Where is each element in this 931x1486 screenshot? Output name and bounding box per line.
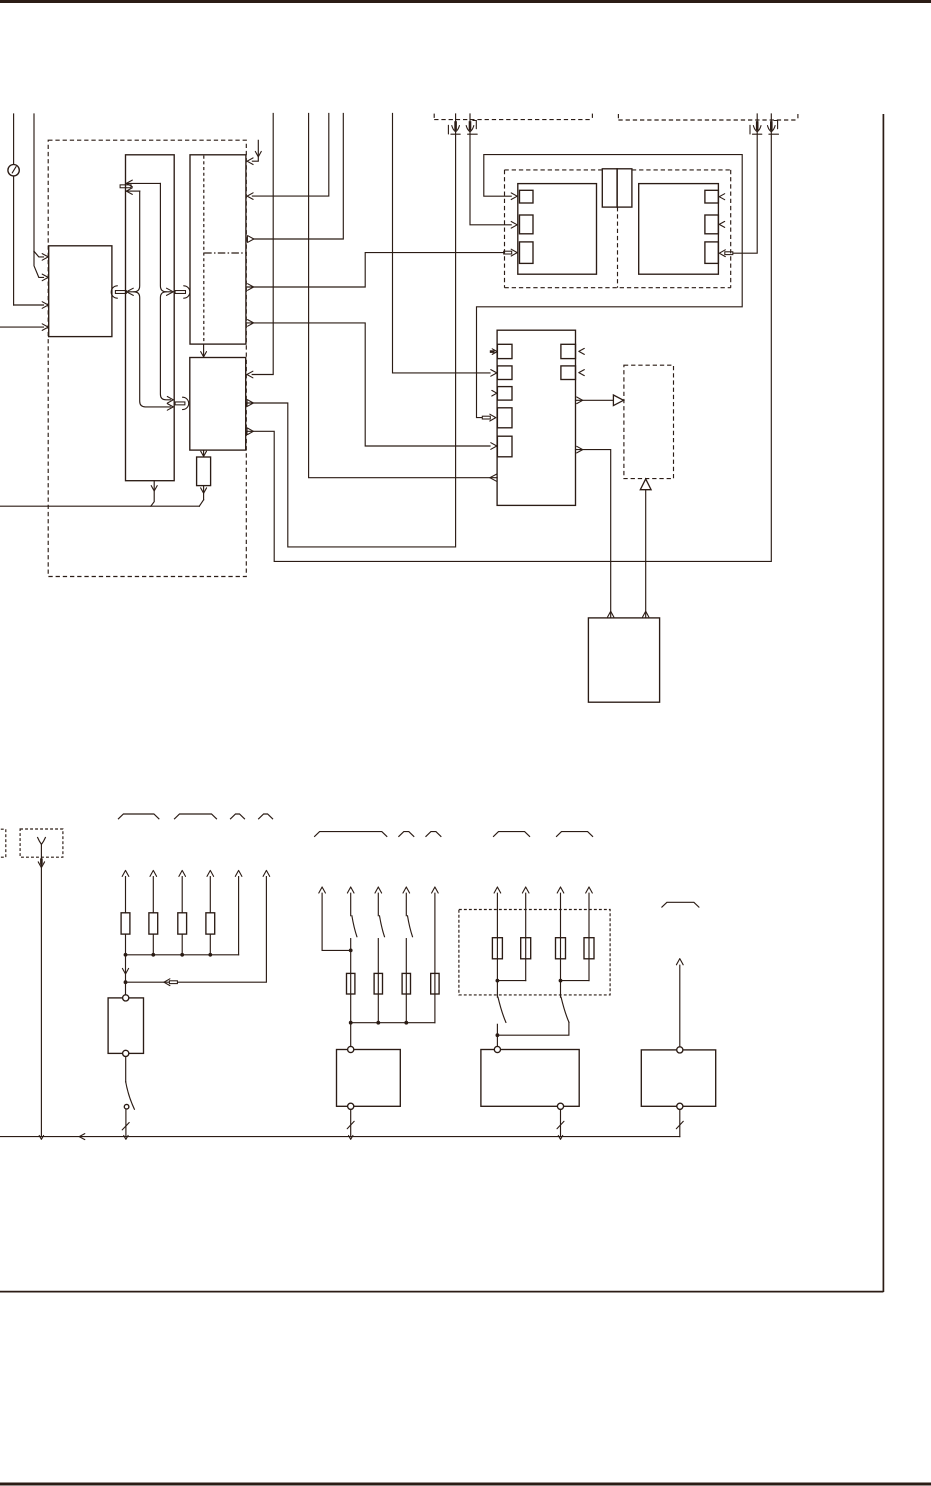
wire 6 lower-left feeding relay row — [124, 870, 270, 985]
wire W4 door-switch loop (left block pin1 to connector C pin4) — [477, 155, 743, 421]
overbrace connector bracket row2-3 — [426, 832, 441, 837]
control box B — [190, 358, 246, 451]
ground bus lower-left of unit L1 — [0, 505, 199, 507]
page top border rule — [0, 0, 931, 3]
dashed connector strip (right) — [618, 114, 798, 120]
dashed battery source box — [20, 829, 63, 857]
flat terminal at shift lock solenoid row — [120, 180, 160, 194]
switch blade below relay — [122, 1057, 134, 1140]
box C right pin 1 — [561, 344, 584, 358]
dashed connector fragment at left page edge — [1, 829, 6, 857]
wire unit L1 bottom to ground bus — [151, 481, 157, 507]
wire entering from top into box R1 pin a — [247, 140, 261, 164]
fuse box wire/fuse at x=525.7 — [521, 887, 531, 981]
connector pass symbol on wire W2 at dashed strip — [448, 121, 460, 134]
wire battery box to ground bus — [38, 844, 44, 1139]
middle group wire/fuse at x=378.3 — [374, 887, 384, 1025]
fuse pair 1 junction — [496, 979, 526, 983]
control box E — [588, 618, 659, 702]
wire box R1 pin e to connector C pin5 — [246, 320, 496, 450]
overbrace connector bracket row2-2 — [399, 832, 414, 837]
connector symbol at unit A right edge — [111, 286, 126, 298]
relay RB (starter cut) — [108, 995, 143, 1057]
right block pin 2 — [705, 215, 725, 234]
partition dashed line below coupler — [617, 207, 619, 288]
wire 5 lower-left (no fuse) — [235, 870, 242, 954]
wire left dashed strip to left block pin2 — [470, 114, 517, 228]
fuse 3 lower-left with feed wire — [178, 870, 187, 956]
wire top column to box C left edge (output) — [309, 114, 498, 482]
wire input from left margin — [0, 324, 48, 331]
overbrace connector bracket row1-1 — [118, 814, 158, 819]
overbrace connector bracket row1-3 — [231, 814, 245, 819]
box C right pin 2 — [561, 366, 584, 380]
wire bus to box G — [350, 1023, 352, 1047]
left door switch block — [518, 184, 597, 275]
right block pin 3 — [705, 242, 719, 264]
wire battery feed with gauge symbol — [8, 114, 48, 308]
junction bus under lower-left fuses — [126, 954, 239, 956]
dashed fuse box enclosure (lower right) — [459, 910, 610, 995]
door lock actuator box G — [337, 1046, 401, 1109]
connector pass symbol on pin3 wire — [750, 121, 762, 134]
box C pin 1 with stub arrow — [490, 344, 512, 358]
diagram frame right border — [882, 114, 884, 1292]
solenoid driver box R1 — [190, 155, 246, 344]
middle group wire/fuse at x=350.7 — [347, 887, 357, 1025]
wire box H to ground bus — [557, 1109, 564, 1139]
right block pin 1 — [705, 190, 725, 203]
dash-dot link in box R1 — [204, 252, 245, 254]
wire ignition feed to control unit — [34, 114, 48, 281]
wire pair into right arrow of interlock connector — [160, 183, 173, 403]
stub wire box B to resistor — [201, 450, 207, 456]
wire box B pin h via W3 loop to right dashed strip — [246, 114, 771, 562]
overbrace connector bracket row1-2 — [175, 814, 217, 819]
main ground bus — [0, 1134, 680, 1140]
switch blade 2 lower right — [561, 997, 569, 1022]
wire box C output to dashed unit D — [576, 395, 624, 406]
fuse box wire/fuse at x=589.0 — [584, 887, 594, 981]
junction bus under middle fuses — [351, 1022, 435, 1024]
dashed enclosure fuse/relay box (left) — [48, 140, 246, 576]
box C pin 2 — [497, 366, 512, 380]
wire box E up to dashed unit D with open triangle — [640, 479, 651, 618]
connector pass symbol on wire W3 at dashed strip — [768, 121, 779, 135]
wire top column to box C pin2 — [393, 114, 497, 377]
overbrace connector bracket row1-4 — [259, 814, 273, 819]
connector coupler blocks — [602, 169, 632, 207]
resistor R (vertical) — [197, 457, 211, 486]
connector pass symbol on pin2 wire — [466, 121, 477, 135]
wire box C output down to box E — [576, 446, 614, 617]
fork terminal symbol in battery box — [38, 838, 46, 845]
right door switch block — [639, 184, 719, 275]
fuse 1 lower-left with feed wire — [121, 870, 130, 956]
fuse box wire/fuse at x=497.4 — [492, 887, 502, 997]
fuse box wire/fuse at x=560.5 — [556, 887, 566, 997]
control unit A — [49, 246, 112, 337]
overbrace connector bracket row2-4 — [494, 832, 530, 837]
overbrace connector bracket row2-1 — [315, 832, 387, 837]
box C pin 3 with stub arrowhead — [492, 387, 512, 401]
wire right dashed strip to right block pin3 — [719, 114, 757, 257]
wire box R1 pin c to top column — [247, 114, 343, 243]
box C pin 5 — [497, 436, 512, 457]
key interlock unit L1 — [126, 155, 175, 481]
wire box B pin g via W2 loop to left dashed strip — [246, 114, 455, 547]
wire box F up to connector — [676, 959, 683, 1047]
junction connector box C — [497, 330, 575, 505]
left block pin 3 — [520, 242, 534, 264]
door lock actuator box H — [481, 1046, 579, 1109]
connector terminal right of unit L1 (row 403) — [175, 397, 189, 409]
box C pin 4 — [497, 408, 512, 428]
dashed connector strip (left) — [434, 114, 592, 120]
overbrace connector bracket row3 — [662, 902, 699, 907]
dashed unit D (indicator) — [624, 365, 674, 478]
wire from top column to box R1 pin b — [247, 114, 329, 200]
wire box F to ground bus — [676, 1109, 683, 1136]
wire blade2 to junction — [497, 1022, 569, 1035]
diagram frame bottom line — [0, 1291, 883, 1293]
connector terminal right of unit L1 (row 292) — [175, 286, 190, 298]
left block pin 1 — [520, 190, 534, 203]
fuse 4 lower-left with feed wire — [206, 870, 215, 956]
dashed enclosure door lock assembly — [505, 170, 731, 288]
middle group wire/fuse at x=434.9 — [431, 887, 439, 1023]
middle group wire/fuse at x=406.3 — [402, 887, 412, 1025]
wire 1 middle group joining wire 2 — [319, 887, 353, 952]
page bottom border rule — [0, 1483, 931, 1486]
wire pair into left arrow of interlock connector — [127, 191, 174, 410]
left block pin 2 — [520, 215, 534, 234]
wire top column to box B pin f — [247, 114, 273, 378]
actuator box F — [641, 1047, 715, 1110]
fuse 2 lower-left with feed wire — [149, 870, 158, 956]
wire resistor to ground bus — [199, 486, 206, 507]
wire junction to box H — [496, 1024, 500, 1046]
partition dashed line in box R1 — [203, 156, 205, 344]
switch blade 1 lower right — [498, 997, 506, 1022]
stub wire box R1 to box B — [201, 344, 207, 357]
fuse pair 2 junction — [559, 979, 589, 983]
overbrace connector bracket row2-5 — [557, 832, 593, 837]
wire box G to ground bus — [347, 1109, 354, 1139]
wire bus to relay coil — [122, 955, 128, 995]
wire box R1 pin d to connector C pin3 — [246, 249, 517, 290]
